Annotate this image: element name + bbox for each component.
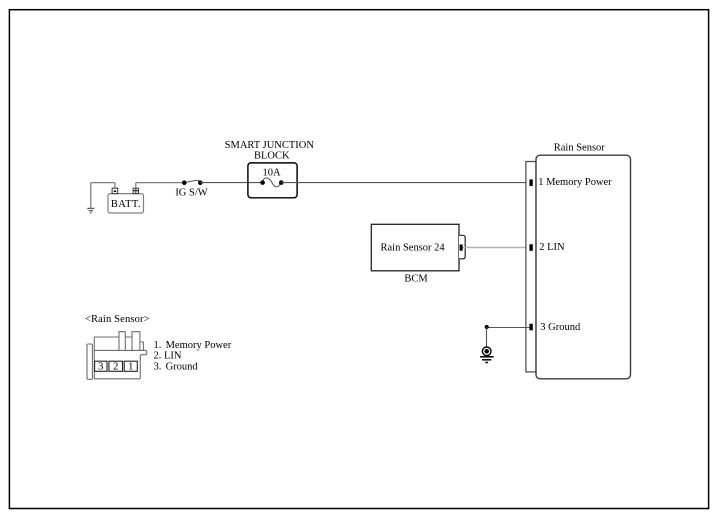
- rain sensor box: [536, 155, 631, 379]
- svg-text:1. Memory Power: 1. Memory Power: [154, 340, 232, 351]
- BCM box: [371, 224, 459, 270]
- wire: ground junction to rain sensor pin 3: [487, 327, 530, 329]
- fuse element (S-curve): [263, 178, 281, 187]
- wire: junction down to chassis ground: [486, 327, 488, 347]
- pin 2 square: [529, 244, 532, 251]
- terminal cell 3: [95, 361, 107, 371]
- svg-text:IG S/W: IG S/W: [175, 188, 207, 199]
- switch IG S/W: [175, 180, 207, 198]
- svg-text:1 Memory Power: 1 Memory Power: [538, 177, 612, 188]
- battery BATT.: [108, 194, 144, 213]
- wire: IG switch to fuse box: [200, 182, 262, 184]
- rain sensor connector strip: [526, 162, 536, 372]
- svg-text:1: 1: [128, 362, 133, 373]
- smart junction block box: [248, 163, 297, 198]
- svg-text:3. Ground: 3. Ground: [154, 361, 199, 372]
- pin 3 square: [529, 324, 532, 331]
- svg-text:2 LIN: 2 LIN: [539, 242, 565, 253]
- terminal cell 1: [124, 361, 137, 371]
- svg-text:2: 2: [113, 362, 118, 373]
- svg-text:BCM: BCM: [404, 274, 428, 285]
- wire: BCM to rain sensor pin 2 (LIN): [463, 247, 530, 249]
- battery plus terminal: [133, 188, 138, 193]
- svg-text:3 Ground: 3 Ground: [540, 322, 581, 333]
- BCM connector tab: [459, 235, 465, 258]
- wire: ground G1 up and over to battery minus terminal: [91, 183, 115, 209]
- svg-text:10A: 10A: [262, 168, 281, 179]
- svg-text:Rain Sensor 24: Rain Sensor 24: [381, 243, 446, 254]
- svg-text:BATT.: BATT.: [111, 199, 141, 210]
- connector housing outline with lock tabs and latch: [94, 332, 147, 379]
- lock tab edges: [118, 337, 120, 350]
- connector flange (left): [87, 344, 92, 379]
- connector body front face line: [94, 349, 144, 351]
- fuse terminal dots: [260, 180, 265, 185]
- BCM pin (Rain Sensor 24): [460, 245, 463, 251]
- battery minus terminal: [112, 188, 118, 193]
- wire: fuse to rain sensor pin 1: [281, 182, 529, 184]
- junction node dot: [485, 325, 489, 329]
- ground G2 (chassis ground symbol): [480, 347, 494, 363]
- svg-text:3: 3: [98, 362, 103, 373]
- ground G1 (battery negative): [87, 208, 94, 212]
- svg-text:BLOCK: BLOCK: [254, 150, 290, 161]
- pin 1 square: [529, 179, 532, 186]
- svg-text:Rain Sensor: Rain Sensor: [554, 143, 606, 154]
- wire: battery plus terminal to IG switch: [136, 183, 185, 189]
- svg-text:<Rain Sensor>: <Rain Sensor>: [85, 314, 150, 325]
- terminal cell 2: [109, 361, 123, 371]
- svg-text:2. LIN: 2. LIN: [154, 351, 182, 362]
